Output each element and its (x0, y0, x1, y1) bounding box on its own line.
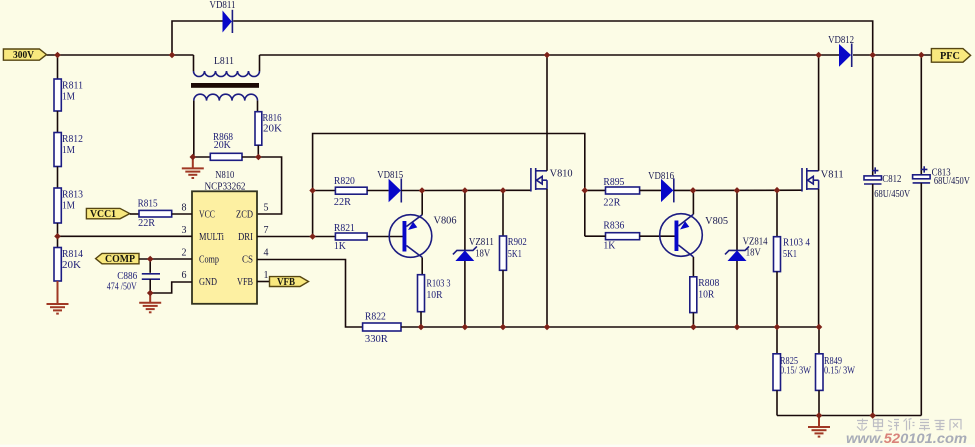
svg-text:474 /50V: 474 /50V (107, 281, 137, 293)
resistor R103 4 (774, 190, 811, 327)
wire R813-R814 (57, 223, 59, 248)
resistor R822 (363, 311, 401, 345)
capacitor C812 (864, 55, 910, 416)
svg-text:22R: 22R (603, 196, 621, 208)
resistor R868 (193, 131, 259, 161)
MOSFET V811 (802, 55, 844, 327)
wire main 300V bus (47, 54, 194, 56)
wire top bypass rail (172, 21, 223, 55)
diode VD811 (210, 0, 236, 33)
svg-text:8: 8 (182, 203, 187, 214)
wire gate line stage1 (422, 189, 531, 191)
svg-text:L811: L811 (214, 55, 234, 67)
wire bus right of L811 (260, 54, 840, 56)
wire R812-R813 (57, 167, 59, 189)
wire sense bus (401, 326, 819, 328)
resistor R825 (773, 327, 811, 416)
port 300V (3, 49, 46, 61)
wire DRI pin7 (257, 236, 313, 238)
resistor R103 3 (418, 275, 451, 327)
ground main (808, 416, 830, 437)
svg-text:MULTi: MULTi (199, 232, 224, 243)
svg-text:VZ811: VZ811 (469, 236, 494, 248)
svg-text:V805: V805 (705, 215, 728, 227)
resistor R821 (313, 222, 403, 252)
svg-text:0.15/ 3W: 0.15/ 3W (824, 365, 855, 377)
svg-text:22R: 22R (334, 196, 352, 208)
svg-text:5: 5 (264, 203, 269, 214)
resistor R902 (500, 191, 527, 328)
svg-text:0.15/ 3W: 0.15/ 3W (780, 365, 811, 377)
resistor R814 (54, 248, 83, 282)
wire gate line stage2 (693, 189, 802, 191)
svg-text:GND: GND (199, 277, 217, 288)
svg-text:20K: 20K (263, 123, 282, 135)
wire top rail after VD811 (233, 21, 873, 55)
svg-text:18V: 18V (475, 248, 490, 260)
svg-text:R822: R822 (365, 311, 386, 323)
svg-text:R836: R836 (603, 220, 624, 232)
resistor R808 (690, 277, 720, 327)
svg-text:DRI: DRI (238, 232, 253, 243)
diode VD816 (648, 170, 693, 203)
svg-text:NCP33262: NCP33262 (205, 180, 246, 192)
svg-text:VCC: VCC (199, 209, 215, 220)
resistor R811 (54, 55, 83, 111)
resistor R820 (313, 175, 389, 208)
svg-text:V806: V806 (434, 215, 457, 227)
svg-text:COMP: COMP (105, 254, 135, 265)
svg-text:V811: V811 (821, 168, 844, 180)
transistor V805 (660, 190, 729, 276)
wire gate feed vertical left (313, 134, 585, 237)
ground under R814 (47, 281, 69, 314)
resistor R812 (54, 133, 83, 167)
svg-text:VD815: VD815 (377, 169, 403, 181)
svg-text:R103 3: R103 3 (427, 277, 451, 289)
resistor R836 (585, 220, 675, 252)
bottom edge strip (0, 445, 975, 447)
wire V811 drain (818, 55, 820, 171)
svg-text:10R: 10R (698, 288, 715, 300)
resistor R815 (130, 198, 192, 229)
svg-text:V810: V810 (550, 167, 573, 179)
svg-text:VCC1: VCC1 (90, 209, 116, 220)
diode VD815 (377, 169, 422, 203)
resistor R813 (54, 188, 83, 223)
svg-text:VD816: VD816 (648, 170, 674, 182)
wire MULTI pin3 (58, 235, 193, 237)
svg-text:68U/450V: 68U/450V (874, 188, 910, 200)
svg-text:Comp: Comp (199, 254, 219, 265)
svg-text:10R: 10R (427, 289, 444, 301)
IC U1 N810 NCP33262 (182, 169, 269, 304)
wire V810 source (546, 189, 548, 327)
svg-text:1M: 1M (62, 200, 75, 212)
capacitor C813 (913, 55, 970, 416)
wire CS pin4 route (257, 260, 363, 328)
port VCC1 (86, 208, 129, 220)
svg-text:C812: C812 (882, 173, 901, 185)
ground under C886 (139, 293, 161, 312)
svg-text:R821: R821 (334, 222, 355, 234)
svg-text:www.520101.com: www.520101.com (846, 431, 967, 446)
svg-text:CS: CS (242, 254, 253, 265)
svg-text:2: 2 (182, 248, 187, 259)
svg-text:20K: 20K (62, 259, 81, 271)
svg-text:ZCD: ZCD (236, 209, 253, 220)
resistor R816 (255, 112, 282, 157)
svg-text:5K1: 5K1 (783, 248, 797, 260)
inductor L811 (191, 55, 260, 157)
svg-text:1K: 1K (334, 240, 346, 252)
svg-text:R895: R895 (603, 176, 624, 188)
svg-text:VD811: VD811 (210, 0, 236, 11)
capacitor C886 (107, 259, 160, 293)
svg-text:3: 3 (182, 225, 187, 236)
ground at transformer secondary (182, 157, 204, 178)
wire ZCD route (257, 157, 282, 214)
zener VZ811 (453, 191, 494, 328)
svg-text:22R: 22R (138, 217, 156, 229)
watermark (857, 419, 961, 431)
svg-text:4: 4 (264, 248, 269, 259)
svg-text:68U/450V: 68U/450V (934, 175, 970, 187)
svg-text:330R: 330R (365, 333, 389, 345)
resistor R849 (816, 327, 856, 416)
node junction dots (54, 52, 61, 59)
MOSFET V810 (531, 55, 573, 327)
wire GND pin6 route (150, 282, 192, 293)
wire V811 source (818, 189, 820, 327)
resistor R895 (585, 176, 661, 208)
svg-text:R815: R815 (138, 198, 158, 210)
wire bus after VD812 to PFC (853, 54, 931, 56)
svg-text:N810: N810 (215, 169, 234, 181)
svg-text:6: 6 (182, 270, 187, 281)
svg-text:300V: 300V (13, 50, 35, 61)
svg-text:7: 7 (264, 225, 269, 236)
svg-text:VFB: VFB (237, 277, 253, 288)
svg-text:20K: 20K (214, 139, 231, 151)
svg-text:1: 1 (264, 270, 269, 281)
svg-text:VD812: VD812 (828, 34, 854, 46)
svg-text:18V: 18V (746, 246, 761, 258)
wire ground bus (777, 415, 921, 417)
port PFC (931, 49, 970, 63)
wire V810 drain (546, 55, 548, 171)
svg-text:R820: R820 (334, 175, 355, 187)
svg-text:5K1: 5K1 (508, 248, 522, 260)
svg-text:1M: 1M (62, 91, 75, 103)
svg-text:VFB: VFB (277, 277, 295, 288)
svg-text:1M: 1M (62, 144, 75, 156)
svg-text:1K: 1K (603, 240, 615, 252)
svg-text:PFC: PFC (940, 51, 960, 62)
wire R811-R812 (57, 111, 59, 133)
port COMP (96, 253, 139, 265)
svg-text:R103 4: R103 4 (783, 236, 810, 248)
zener VZ814 (725, 190, 768, 327)
diode VD812 (828, 34, 854, 67)
svg-text:R902: R902 (508, 236, 527, 248)
wire Comp pin2 (139, 258, 192, 260)
transistor V806 (389, 191, 457, 275)
port VFB (257, 277, 309, 288)
